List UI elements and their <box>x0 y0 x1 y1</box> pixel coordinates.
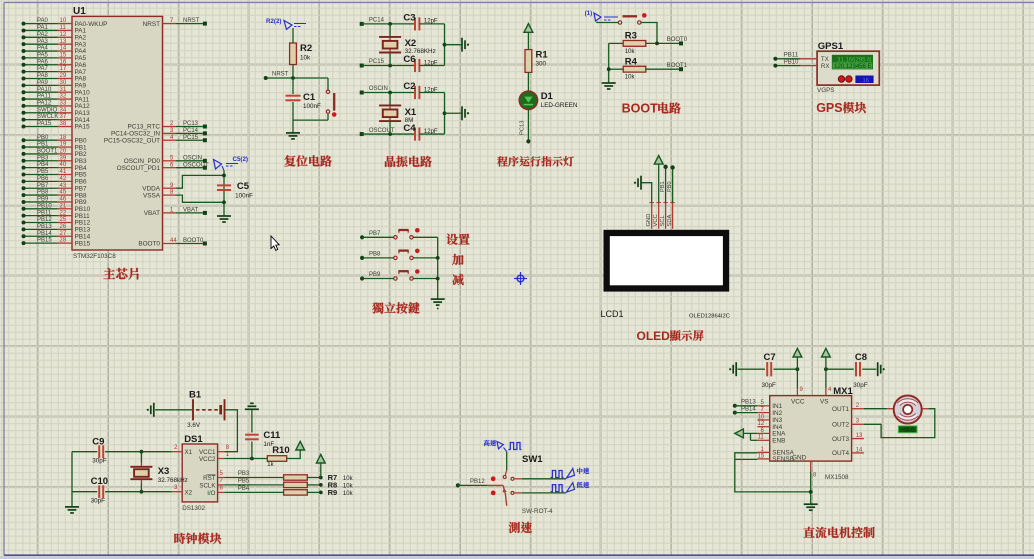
svg-text:VCC: VCC <box>791 399 805 406</box>
svg-text:27: 27 <box>60 231 67 237</box>
svg-text:PC15: PC15 <box>369 59 385 65</box>
svg-text:12pF: 12pF <box>424 129 438 135</box>
svg-text:PB10: PB10 <box>784 59 799 65</box>
svg-text:32.768kHz: 32.768kHz <box>158 477 188 484</box>
svg-text:PC14: PC14 <box>369 18 385 24</box>
svg-text:25: 25 <box>60 217 67 223</box>
svg-text:10k: 10k <box>300 55 311 62</box>
svg-text:R9: R9 <box>328 488 338 497</box>
svg-text:PB14: PB14 <box>37 231 52 237</box>
svg-text:PB5: PB5 <box>37 169 49 175</box>
svg-text:PA2: PA2 <box>37 32 49 38</box>
svg-text:14: 14 <box>60 46 67 52</box>
svg-text:PB3: PB3 <box>37 155 49 161</box>
svg-text:13: 13 <box>60 39 67 45</box>
svg-text:PC15: PC15 <box>183 135 199 141</box>
svg-text:OSCOUT_PD1: OSCOUT_PD1 <box>117 165 161 172</box>
svg-text:28: 28 <box>60 238 67 244</box>
svg-text:10k: 10k <box>343 483 354 489</box>
svg-text:SDA: SDA <box>667 214 673 226</box>
svg-text:PC13: PC13 <box>520 120 526 135</box>
svg-text:45: 45 <box>60 190 67 196</box>
svg-text:20: 20 <box>60 149 67 155</box>
svg-text:120.123456 E: 120.123456 E <box>834 64 871 70</box>
svg-text:15: 15 <box>60 53 67 59</box>
svg-text:10k: 10k <box>343 476 354 482</box>
svg-text:10k: 10k <box>343 491 354 497</box>
svg-text:PA12: PA12 <box>37 101 52 107</box>
svg-text:BOOT: BOOT <box>622 102 658 116</box>
svg-text:10k: 10k <box>625 75 636 81</box>
svg-text:100nF: 100nF <box>235 193 253 200</box>
svg-text:PA15: PA15 <box>37 121 52 127</box>
svg-text:4: 4 <box>828 387 832 393</box>
svg-text:SCLK: SCLK <box>199 482 216 489</box>
svg-text:PB8: PB8 <box>369 251 381 257</box>
svg-text:B1: B1 <box>189 390 202 401</box>
svg-text:PB9: PB9 <box>369 272 381 278</box>
svg-text:34: 34 <box>60 107 67 113</box>
svg-text:PB11: PB11 <box>784 53 799 59</box>
svg-text:43: 43 <box>60 183 67 189</box>
svg-text:30pF: 30pF <box>853 382 868 389</box>
svg-text:PC15-OSC32_OUT: PC15-OSC32_OUT <box>104 137 160 144</box>
svg-text:PB10: PB10 <box>37 203 52 209</box>
svg-text:300: 300 <box>536 61 547 68</box>
svg-text:41: 41 <box>60 169 67 175</box>
svg-text:PA7: PA7 <box>37 66 49 72</box>
svg-text:16: 16 <box>60 59 67 65</box>
svg-text:PB14: PB14 <box>741 406 756 412</box>
svg-text:DS1: DS1 <box>184 434 203 445</box>
svg-text:STM32F103C8: STM32F103C8 <box>73 253 116 260</box>
svg-text:BOOT1: BOOT1 <box>667 63 688 69</box>
svg-text:12pF: 12pF <box>424 60 438 66</box>
svg-text:10k: 10k <box>625 49 636 55</box>
svg-text:VCC: VCC <box>653 214 659 226</box>
svg-text:VGPS: VGPS <box>817 87 835 94</box>
svg-text:29: 29 <box>60 73 67 79</box>
svg-text:U1: U1 <box>73 6 86 17</box>
svg-text:R2: R2 <box>300 43 312 54</box>
svg-text:PB12: PB12 <box>37 217 52 223</box>
svg-text:R1: R1 <box>536 50 549 61</box>
svg-text:21: 21 <box>60 203 67 209</box>
svg-text:SW1: SW1 <box>522 454 543 465</box>
svg-text:BOOT0: BOOT0 <box>183 238 204 244</box>
svg-text:ENB: ENB <box>772 438 785 445</box>
svg-text:X3: X3 <box>158 466 170 477</box>
svg-text:12: 12 <box>758 421 765 427</box>
svg-text:C6: C6 <box>403 54 415 65</box>
svg-text:R3: R3 <box>625 31 637 42</box>
svg-text:31: 31 <box>60 87 67 93</box>
svg-text:C3: C3 <box>403 13 415 24</box>
svg-text:PA15: PA15 <box>75 124 91 131</box>
svg-text:11: 11 <box>758 435 765 441</box>
svg-text:C1: C1 <box>303 92 316 103</box>
svg-text:(1): (1) <box>585 10 593 17</box>
svg-text:14: 14 <box>856 447 863 453</box>
svg-text:D1: D1 <box>541 91 554 102</box>
svg-text:30pF: 30pF <box>92 458 107 465</box>
svg-text:BOOT1: BOOT1 <box>37 149 58 155</box>
svg-text:6: 6 <box>220 486 224 492</box>
svg-text:16: 16 <box>863 78 869 84</box>
svg-text:GND: GND <box>792 454 807 461</box>
svg-text:30: 30 <box>60 80 67 86</box>
svg-text:GPS: GPS <box>816 101 842 115</box>
svg-text:R4: R4 <box>625 56 638 67</box>
svg-text:C9: C9 <box>92 437 104 448</box>
svg-text:32: 32 <box>60 94 67 100</box>
svg-text:GND: GND <box>646 214 652 227</box>
svg-text:NRST: NRST <box>272 72 289 78</box>
svg-text:PA10: PA10 <box>37 87 52 93</box>
svg-text:VS: VS <box>820 399 829 406</box>
svg-text:PA8: PA8 <box>37 73 49 79</box>
svg-text:PB9: PB9 <box>37 197 49 203</box>
svg-text:PB15: PB15 <box>37 238 52 244</box>
svg-text:RST: RST <box>203 475 216 482</box>
svg-text:PB4: PB4 <box>238 486 250 492</box>
svg-text:19: 19 <box>60 142 67 148</box>
svg-text:9: 9 <box>800 387 804 393</box>
svg-text:IN2: IN2 <box>772 410 782 417</box>
svg-text:R10: R10 <box>272 445 289 456</box>
svg-text:OUT2: OUT2 <box>832 422 849 429</box>
svg-text:SWDIO: SWDIO <box>37 107 58 113</box>
svg-text:PB0: PB0 <box>667 181 673 192</box>
svg-text:VCC2: VCC2 <box>199 456 216 463</box>
svg-text:26: 26 <box>60 224 67 230</box>
svg-text:10: 10 <box>60 18 67 24</box>
svg-text:GPS1: GPS1 <box>818 41 844 52</box>
svg-text:OUT3: OUT3 <box>832 436 849 443</box>
svg-text:OLED: OLED <box>637 329 671 343</box>
svg-text:R2(2): R2(2) <box>266 18 281 25</box>
svg-text:PB7: PB7 <box>369 231 381 237</box>
svg-text:46: 46 <box>60 197 67 203</box>
svg-text:PB13: PB13 <box>37 224 52 230</box>
svg-text:PA5: PA5 <box>37 53 49 59</box>
svg-text:+00.0: +00.0 <box>901 428 914 434</box>
svg-text:PB4: PB4 <box>37 162 49 168</box>
svg-text:42: 42 <box>60 176 67 182</box>
svg-text:1: 1 <box>226 452 230 458</box>
svg-text:22: 22 <box>60 210 67 216</box>
svg-text:15: 15 <box>758 453 765 459</box>
svg-text:PA4: PA4 <box>37 46 49 52</box>
svg-text:C10: C10 <box>91 476 108 487</box>
svg-text:C5: C5 <box>237 181 250 192</box>
svg-text:OSCIN: OSCIN <box>369 86 388 92</box>
svg-text:PB0: PB0 <box>37 135 49 141</box>
svg-text:SWCLK: SWCLK <box>37 114 58 120</box>
svg-text:C8: C8 <box>855 352 867 363</box>
svg-text:PB3: PB3 <box>238 471 250 477</box>
svg-text:40: 40 <box>60 162 67 168</box>
svg-text:PA1: PA1 <box>37 25 49 31</box>
svg-text:LCD1: LCD1 <box>601 309 624 319</box>
svg-text:3.6V: 3.6V <box>187 422 201 429</box>
svg-text:NRST: NRST <box>183 18 200 24</box>
svg-text:PA3: PA3 <box>37 39 49 45</box>
svg-text:PB13: PB13 <box>741 400 756 406</box>
svg-text:C7: C7 <box>764 352 776 363</box>
svg-text:C2: C2 <box>403 81 415 92</box>
svg-text:NRST: NRST <box>143 21 160 28</box>
svg-text:PB12: PB12 <box>470 479 485 485</box>
svg-text:8M: 8M <box>405 117 414 124</box>
svg-text:1k: 1k <box>267 462 274 468</box>
svg-text:38: 38 <box>60 121 67 127</box>
svg-text:5: 5 <box>220 471 224 477</box>
svg-text:17: 17 <box>60 66 67 72</box>
svg-text:39: 39 <box>60 155 67 161</box>
svg-text:PA0: PA0 <box>37 18 49 24</box>
svg-text:SW-ROT-4: SW-ROT-4 <box>522 508 553 515</box>
svg-text:X1: X1 <box>185 449 193 456</box>
svg-text:PB11: PB11 <box>37 210 52 216</box>
svg-text:7: 7 <box>220 478 224 484</box>
svg-text:PB5: PB5 <box>238 479 250 485</box>
svg-text:PB8: PB8 <box>37 190 49 196</box>
svg-text:C4: C4 <box>403 123 416 134</box>
svg-text:37: 37 <box>60 114 67 120</box>
svg-text:12pF: 12pF <box>424 19 438 25</box>
svg-text:PB1: PB1 <box>660 181 666 192</box>
svg-text:PA6: PA6 <box>37 59 49 65</box>
svg-text:PB7: PB7 <box>37 183 49 189</box>
svg-text:3: 3 <box>174 485 178 491</box>
svg-text:30pF: 30pF <box>762 382 777 389</box>
svg-text:33: 33 <box>60 101 67 107</box>
svg-text:11: 11 <box>60 25 67 31</box>
svg-text:OUT1: OUT1 <box>832 406 849 413</box>
svg-text:8: 8 <box>813 473 817 479</box>
svg-text:PA11: PA11 <box>37 94 51 100</box>
svg-text:100nF: 100nF <box>303 103 321 110</box>
svg-text:OSCIN: OSCIN <box>183 155 202 161</box>
svg-text:VSSA: VSSA <box>143 192 161 199</box>
svg-text:PB15: PB15 <box>75 240 91 247</box>
svg-text:SCL: SCL <box>660 214 666 226</box>
svg-text:12pF: 12pF <box>424 87 438 93</box>
svg-text:18: 18 <box>60 135 67 141</box>
svg-text:PB1: PB1 <box>37 142 49 148</box>
svg-text:PC13: PC13 <box>183 121 199 127</box>
svg-text:RX: RX <box>821 63 830 70</box>
svg-text:30pF: 30pF <box>91 498 106 505</box>
svg-text:OLED12864I2C: OLED12864I2C <box>689 314 730 320</box>
svg-text:8: 8 <box>226 445 230 451</box>
svg-text:SENSB: SENSB <box>772 456 794 463</box>
svg-text:DS1302: DS1302 <box>182 505 205 512</box>
svg-text:12: 12 <box>60 32 67 38</box>
svg-text:BOOT0: BOOT0 <box>667 37 688 43</box>
svg-text:C11: C11 <box>263 430 281 441</box>
svg-text:PA9: PA9 <box>37 80 49 86</box>
svg-text:PB6: PB6 <box>37 176 49 182</box>
svg-text:10: 10 <box>758 414 765 420</box>
svg-text:32.768KHz: 32.768KHz <box>405 48 436 55</box>
svg-text:2: 2 <box>174 445 178 451</box>
svg-text:PC14: PC14 <box>183 128 199 134</box>
svg-text:VBAT: VBAT <box>183 208 199 214</box>
svg-text:13: 13 <box>856 433 863 439</box>
svg-text:OUT4: OUT4 <box>832 450 849 457</box>
svg-text:MX1508: MX1508 <box>825 474 849 481</box>
svg-text:I/O: I/O <box>207 490 215 497</box>
svg-text:BOOT0: BOOT0 <box>138 241 160 248</box>
svg-text:VBAT: VBAT <box>144 210 160 217</box>
svg-text:LED-GREEN: LED-GREEN <box>541 102 578 109</box>
svg-text:X2: X2 <box>185 490 193 497</box>
svg-text:C5(2): C5(2) <box>233 156 248 163</box>
